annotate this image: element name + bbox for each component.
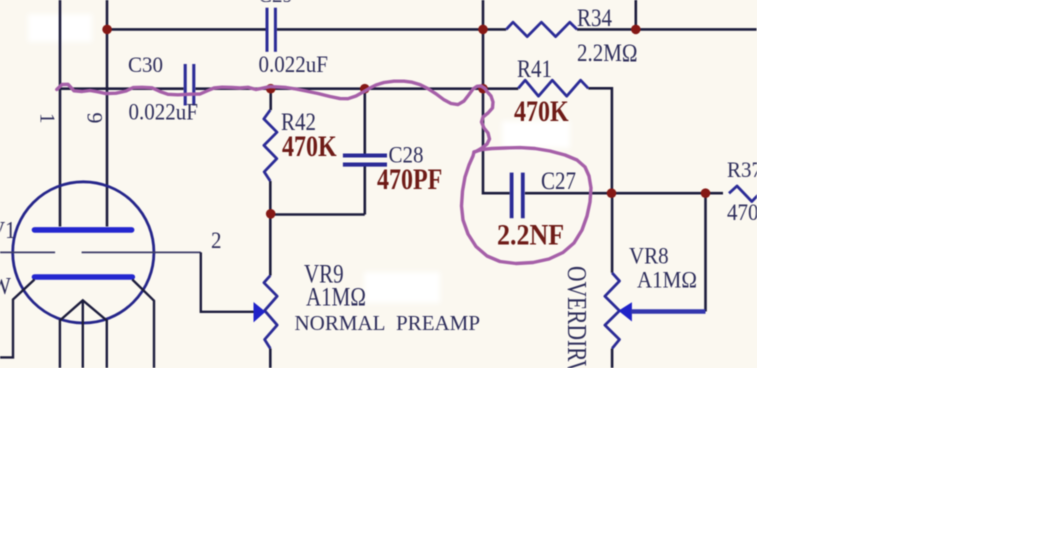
svg-text:R41: R41 (517, 55, 552, 83)
svg-text:C30: C30 (128, 53, 163, 78)
svg-text:0.022uF: 0.022uF (129, 98, 198, 124)
svg-text:470K: 470K (282, 129, 337, 162)
svg-text:2: 2 (211, 227, 221, 253)
svg-text:R34: R34 (577, 4, 612, 32)
svg-text:0.022uF: 0.022uF (259, 51, 328, 77)
svg-text:470PF: 470PF (377, 163, 442, 196)
svg-text:VR8: VR8 (629, 242, 669, 268)
svg-text:470K: 470K (514, 95, 569, 128)
svg-text:470K: 470K (727, 199, 757, 225)
svg-text:OVERDIRV: OVERDIRV (561, 266, 591, 368)
svg-text:1: 1 (36, 113, 60, 124)
svg-text:A1MΩ: A1MΩ (637, 267, 697, 293)
svg-text:6: 6 (82, 113, 107, 124)
svg-text:R37: R37 (727, 158, 757, 183)
svg-text:C29: C29 (258, 0, 293, 7)
svg-text:NORMAL PREAMP: NORMAL PREAMP (295, 311, 481, 335)
svg-text:A1MΩ: A1MΩ (306, 283, 366, 312)
svg-text:V1: V1 (0, 217, 16, 244)
svg-text:W: W (0, 273, 11, 300)
svg-text:C27: C27 (541, 167, 576, 195)
svg-text:2.2MΩ: 2.2MΩ (577, 39, 638, 67)
svg-text:2.2NF: 2.2NF (497, 218, 564, 251)
